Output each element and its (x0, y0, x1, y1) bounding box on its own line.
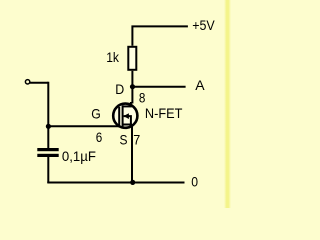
svg-text:8: 8 (139, 89, 146, 105)
svg-text:6: 6 (96, 129, 103, 145)
svg-text:N-FET: N-FET (145, 105, 183, 121)
svg-text:0: 0 (191, 174, 198, 190)
svg-text:7: 7 (133, 132, 140, 148)
svg-text:G: G (91, 106, 101, 122)
svg-text:S: S (120, 132, 128, 148)
svg-text:D: D (115, 81, 124, 97)
svg-text:0,1µF: 0,1µF (62, 148, 96, 164)
svg-text:1k: 1k (106, 49, 120, 65)
svg-text:A: A (195, 77, 205, 93)
svg-text:+5V: +5V (192, 17, 215, 33)
